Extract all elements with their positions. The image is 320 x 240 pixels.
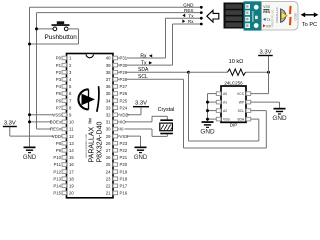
svg-text:P24: P24 (120, 105, 128, 110)
svg-text:P21: P21 (120, 155, 128, 160)
node Rx wire end dot at Prop Plug (200, 23, 203, 26)
svg-text:3.3V: 3.3V (260, 49, 272, 55)
svg-text:P10: P10 (53, 155, 61, 160)
wire SDA net: junction to resistor R1 left lead (189, 71, 228, 73)
pin 36 (P27) right pin box, number and label (106, 84, 128, 89)
svg-text:27: 27 (106, 148, 111, 153)
svg-text:13: 13 (69, 141, 74, 146)
wire RES net: vertical rail down to RESx pin 11 (36, 13, 38, 129)
pin 24 (P19) right pin box, number and label (106, 169, 128, 174)
pin 29 (VSS) right pin box, number and label (106, 134, 129, 139)
wire SDA net: resistor R1 right lead to 3.3V junction (246, 71, 269, 73)
svg-text:Tx: Tx (141, 60, 147, 66)
svg-text:P17: P17 (120, 184, 128, 189)
wire EEPROM WP pin 7 to ground (251, 101, 280, 103)
svg-text:P14: P14 (53, 184, 61, 189)
svg-text:12: 12 (69, 134, 74, 139)
svg-text:VSS: VSS (223, 118, 231, 122)
pin 23 (P18) right pin box, number and label (106, 176, 128, 181)
svg-text:PROP PLUG: PROP PLUG (271, 9, 275, 27)
svg-text:P27: P27 (120, 84, 128, 89)
IC U2 24LC256 EEPROM body (221, 86, 246, 122)
pin 19 (P14) left pin box, number and label (53, 184, 74, 189)
svg-text:Rx: Rx (140, 53, 147, 59)
pin 10 (BOEx) left pin box, number and label (50, 120, 75, 125)
svg-text:23: 23 (106, 176, 111, 181)
IC U1 Parallax Propeller P8X32A-D40 body (67, 54, 114, 198)
svg-text:P25: P25 (120, 98, 128, 103)
svg-text:28: 28 (106, 141, 111, 146)
svg-text:18: 18 (69, 176, 74, 181)
pin 6 (P5) left pin box, number and label (56, 91, 72, 96)
wire GND net: left vertical rail (29, 7, 31, 146)
wire SCL net: vertical rise to EEPROM SCL pin 6 (265, 111, 267, 148)
EEPROM pin 4 (VSS) left box and label (216, 117, 230, 121)
pin 11 (RESx) left pin box, number and label (50, 127, 74, 132)
svg-text:29: 29 (106, 134, 111, 139)
svg-text:A2: A2 (223, 109, 227, 113)
svg-text:P20: P20 (120, 162, 128, 167)
svg-text:RESx: RESx (50, 127, 62, 132)
wire GND net: stub to BOEx pin 10 (30, 121, 63, 123)
wire SDA net: vertical drop from junction (188, 72, 190, 141)
wire 3.3V left to VDD pin 12 (9, 127, 11, 136)
power 3.3V rail at EEPROM (258, 49, 273, 56)
pin 39 (P30) right pin box, number and label (106, 63, 128, 68)
pin 25 (P20) right pin box, number and label (106, 162, 128, 167)
wire GND net: top horizontal from Prop Plug to left rail (30, 6, 202, 8)
svg-text:P9: P9 (56, 148, 62, 153)
svg-text:P0: P0 (56, 56, 62, 61)
wire SDA net: vertical rise to EEPROM SDA pin 5 (258, 119, 260, 141)
node junction A1 on bus (206, 101, 209, 104)
EEPROM pin 8 (VCC) right box and label (237, 92, 251, 96)
wire Tx net: vertical drop to P31 (165, 18, 167, 58)
svg-text:P30: P30 (120, 63, 128, 68)
ground symbol left rail (23, 147, 37, 161)
svg-text:37: 37 (106, 77, 111, 82)
svg-text:SCL: SCL (138, 74, 148, 80)
svg-text:P7: P7 (56, 105, 62, 110)
wire EEPROM address/VSS bus to ground (207, 94, 209, 122)
svg-text:Tx: Tx (188, 13, 194, 18)
pin 17 (P12) left pin box, number and label (53, 169, 74, 174)
node junction pushbutton on RES rail (35, 27, 38, 30)
svg-text:VSS: VSS (263, 5, 270, 9)
svg-text:VSS: VSS (52, 113, 61, 118)
svg-text:40: 40 (106, 56, 111, 61)
pin 33 (P24) right pin box, number and label (106, 105, 128, 110)
svg-text:31: 31 (106, 120, 111, 125)
svg-text:P19: P19 (120, 169, 128, 174)
svg-text:SCL: SCL (238, 109, 245, 113)
EEPROM pin 3 (A2) left box and label (216, 109, 227, 113)
svg-text:VDD: VDD (120, 113, 129, 118)
wire XO pin 31 to crystal top plate (118, 121, 153, 123)
svg-text:17: 17 (69, 169, 74, 174)
svg-text:P15: P15 (53, 191, 61, 196)
pin 13 (P8) left pin box, number and label (56, 141, 75, 146)
svg-text:P1: P1 (56, 63, 62, 68)
svg-text:PARALLAX ™: PARALLAX ™ (89, 118, 96, 163)
EEPROM pin 7 (WP) right box and label (239, 100, 251, 104)
EEPROM pin 5 (SDA) right box and label (237, 117, 250, 121)
pin 5 (P4) left pin box, number and label (56, 84, 72, 89)
svg-text:PARALLAX: PARALLAX (275, 7, 279, 22)
svg-text:VSS: VSS (120, 134, 129, 139)
svg-text:P13: P13 (53, 176, 61, 181)
pin 27 (P22) right pin box, number and label (106, 148, 128, 153)
wire GND net: stub to VSS pin 9 (30, 114, 63, 116)
svg-text:P16: P16 (120, 191, 128, 196)
wire RES net: horizontal from Prop Plug (37, 12, 202, 14)
wire Rx net: horizontal at Prop Plug (173, 23, 202, 25)
pin 22 (P17) right pin box, number and label (106, 184, 128, 189)
pin 35 (P26) right pin box, number and label (106, 91, 128, 96)
pin 4 (P3) left pin box, number and label (56, 77, 72, 82)
svg-text:P6: P6 (56, 98, 62, 103)
node RES wire end dot at Prop Plug (200, 11, 203, 14)
resistor R1 10 kOhm (228, 69, 246, 75)
svg-text:15: 15 (69, 155, 74, 160)
node Tx wire end dot at Prop Plug (200, 17, 203, 20)
wire SDA net: bottom horizontal run (189, 140, 259, 142)
wire SDA net: from P29 pin 38 to junction (118, 71, 189, 73)
wire Tx net: horizontal into P31 pin 40 (118, 57, 166, 59)
svg-text:22: 22 (106, 184, 111, 189)
wire SCL net: bottom horizontal run (184, 147, 267, 149)
node junction VSS on bus (206, 118, 209, 121)
svg-text:38: 38 (106, 70, 111, 75)
svg-text:GND: GND (23, 155, 37, 161)
Parallax logo inside U1 (78, 86, 99, 112)
svg-text:P5: P5 (56, 91, 62, 96)
svg-text:10: 10 (69, 120, 74, 125)
svg-text:www.parallax.com: www.parallax.com (84, 133, 88, 158)
pin 1 index notch (86, 54, 93, 58)
svg-text:VDD: VDD (52, 134, 61, 139)
svg-text:32: 32 (106, 113, 111, 118)
svg-text:P3: P3 (56, 77, 62, 82)
svg-text:33: 33 (106, 105, 111, 110)
svg-text:XO: XO (120, 120, 127, 125)
EEPROM pin 1 (A0) left box and label (216, 92, 227, 96)
pin 7 (P6) left pin box, number and label (56, 98, 72, 103)
wire Rx net: horizontal into P30 pin 39 (118, 64, 173, 66)
pin 3 (P2) left pin box, number and label (56, 70, 72, 75)
ground symbol EEPROM left (200, 121, 215, 135)
svg-text:26: 26 (106, 155, 111, 160)
node GND wire end dot at Prop Plug (200, 6, 203, 9)
svg-text:GND: GND (183, 2, 194, 7)
crystal X1 (158, 107, 175, 134)
double arrow to PC (301, 12, 319, 17)
pin 1 (P0) left pin box, number and label (56, 56, 72, 61)
svg-text:36: 36 (106, 84, 111, 89)
ground symbol EEPROM right (272, 108, 287, 122)
svg-text:P8: P8 (56, 141, 62, 146)
svg-text:P29: P29 (120, 70, 128, 75)
pin 26 (P21) right pin box, number and label (106, 155, 128, 160)
pin 20 (P15) left pin box, number and label (53, 191, 74, 196)
node junction pushbutton to GND rail (28, 43, 31, 46)
svg-text:Crystal: Crystal (158, 107, 175, 113)
svg-text:11: 11 (69, 127, 74, 132)
node junction VSS pin 9 on GND rail (28, 113, 31, 116)
pin 2 (P1) left pin box, number and label (56, 63, 72, 68)
pin 15 (P10) left pin box, number and label (53, 155, 74, 160)
svg-text:USB: USB (293, 13, 297, 21)
wire SCL net: into EEPROM SCL pin (251, 110, 267, 112)
svg-text:P2: P2 (56, 70, 62, 75)
svg-text:16: 16 (69, 162, 74, 167)
svg-text:39: 39 (106, 63, 111, 68)
pin 12 (VDD) left pin box, number and label (52, 134, 74, 139)
pin 31 (XO) right pin box, number and label (106, 120, 127, 125)
svg-text:Pushbutton: Pushbutton (45, 34, 78, 41)
pin 32 (VDD) right pin box, number and label (106, 113, 129, 118)
svg-text:P8X32A-D40: P8X32A-D40 (97, 122, 104, 163)
svg-text:P12: P12 (53, 169, 61, 174)
wire GND net: pushbutton return at y=44 (30, 43, 79, 45)
pin 40 (P31) right pin box, number and label (106, 56, 128, 61)
svg-text:To PC: To PC (302, 22, 317, 28)
power 3.3V rail left (3, 120, 17, 127)
pin 16 (P11) left pin box, number and label (54, 162, 75, 167)
svg-text:10 kΩ: 10 kΩ (229, 59, 244, 65)
open arrow pointing left at Prop Plug (207, 10, 219, 22)
pin 34 (P25) right pin box, number and label (106, 98, 128, 103)
svg-text:SDA: SDA (138, 67, 149, 73)
svg-text:24: 24 (106, 169, 111, 174)
EEPROM pin 6 (SCL) right box and label (238, 109, 251, 113)
wire 3.3V to VDD pin 32 (140, 107, 142, 115)
svg-text:SDA: SDA (237, 118, 245, 122)
svg-text:A1: A1 (223, 101, 227, 105)
pin 28 (P23) right pin box, number and label (106, 141, 128, 146)
svg-text:Rx: Rx (188, 19, 194, 24)
svg-text:24LC256: 24LC256 (224, 81, 243, 86)
pin 18 (P13) left pin box, number and label (53, 176, 74, 181)
svg-text:GND: GND (134, 155, 148, 161)
wire XI pin 30 to crystal bottom plate (118, 128, 153, 130)
pin 38 (P29) right pin box, number and label (106, 70, 128, 75)
svg-text:VCC: VCC (237, 92, 245, 96)
svg-text:34: 34 (106, 98, 111, 103)
svg-text:19: 19 (69, 184, 74, 189)
pin 9 (VSS) left pin box, number and label (52, 113, 72, 118)
pin 37 (P28) right pin box, number and label (106, 77, 128, 82)
Prop Plug white PCB section with labels and logo (262, 2, 299, 31)
wire SCL net: from P28 pin 37 (118, 78, 184, 80)
power 3.3V rail at chip right (133, 101, 149, 108)
node SDA junction dot (187, 71, 190, 74)
svg-text:GND: GND (272, 115, 287, 122)
Parallax logo on Prop Plug (281, 9, 286, 22)
node junction R1 / 3.3V / EEPROM VCC (267, 71, 270, 74)
pin 21 (P16) right pin box, number and label (106, 191, 128, 196)
wire Tx net: horizontal at Prop Plug (166, 17, 202, 19)
EEPROM pin 2 (A1) left box and label (216, 100, 227, 104)
svg-text:30: 30 (106, 127, 111, 132)
svg-text:XI: XI (120, 127, 124, 132)
pushbutton S1 (45, 21, 78, 41)
svg-text:3.3V: 3.3V (135, 101, 147, 107)
pin 30 (XI) right pin box, number and label (106, 127, 125, 132)
svg-text:P18: P18 (120, 176, 128, 181)
svg-text:P22: P22 (120, 148, 128, 153)
svg-text:14: 14 (69, 148, 74, 153)
node junction BOEx pin 10 on GND rail (28, 120, 31, 123)
node junction A2 on bus (206, 109, 209, 112)
svg-text:P11: P11 (54, 162, 62, 167)
svg-text:3.3V: 3.3V (4, 120, 16, 126)
svg-text:P26: P26 (120, 91, 128, 96)
svg-text:21: 21 (106, 191, 111, 196)
wire Rx net: vertical drop to P30 (172, 24, 174, 65)
wire VSS pin 29 to ground (118, 135, 141, 137)
svg-text:P28: P28 (120, 77, 128, 82)
svg-text:DIP: DIP (230, 122, 238, 127)
ground symbol at chip right (134, 147, 148, 161)
pin 14 (P9) left pin box, number and label (56, 148, 75, 153)
svg-text:P23: P23 (120, 141, 128, 146)
wire 3.3V down through SDA junction to EEPROM VCC pin 8 (268, 56, 270, 94)
svg-text:20: 20 (69, 191, 74, 196)
svg-text:P4: P4 (56, 84, 62, 89)
svg-text:25: 25 (106, 162, 111, 167)
pin 8 (P7) left pin box, number and label (56, 105, 72, 110)
svg-text:WP: WP (239, 101, 245, 105)
svg-text:35: 35 (106, 91, 111, 96)
wire SDA net: into EEPROM SDA pin (251, 118, 259, 120)
wire pushbutton right terminal to GND return (68, 28, 79, 30)
svg-text:GND: GND (200, 129, 215, 136)
wire RES net: stub to pushbutton left terminal (37, 28, 54, 30)
svg-text:P31: P31 (120, 56, 128, 61)
svg-text:BOEx: BOEx (50, 120, 62, 125)
svg-text:A0: A0 (223, 92, 227, 96)
wire SCL net: vertical drop (183, 79, 185, 148)
Prop Plug teal PCB section (244, 1, 262, 30)
svg-text:RES: RES (184, 8, 193, 13)
connector J1 Prop Plug 4-pin header (black) (224, 3, 244, 29)
